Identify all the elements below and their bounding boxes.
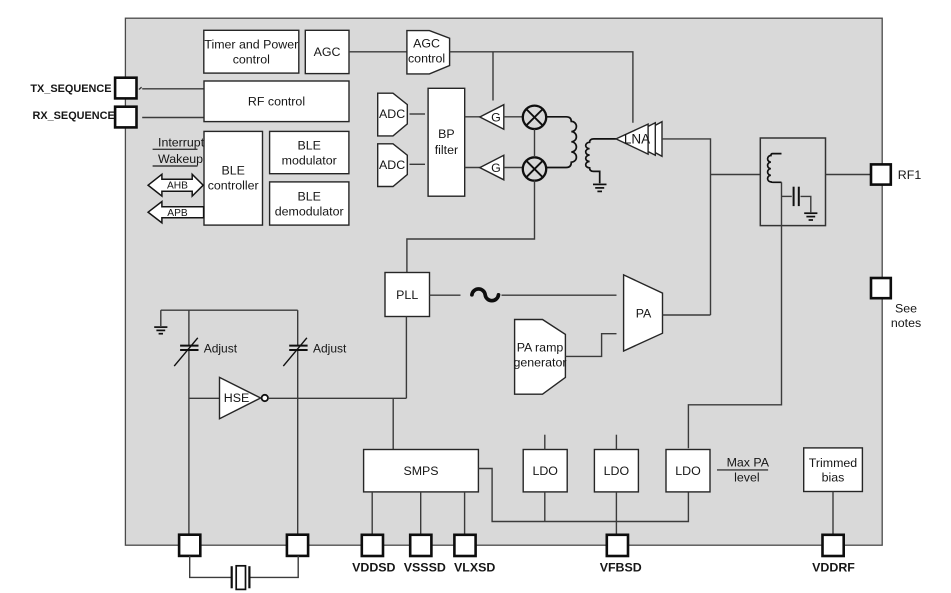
pin square RF1 (871, 164, 891, 184)
wire: SMPS pin 3 (464, 492, 466, 535)
svg-text:modulator: modulator (282, 154, 337, 168)
pin square VDDSD (362, 535, 383, 556)
wire: matching node down to LDO (688, 182, 781, 448)
wire: SMPS pin 1 (371, 492, 373, 535)
mixer top (circle with X) (523, 106, 546, 129)
amplifier G bottom (triangle) (480, 155, 504, 180)
right crystal line lower (297, 351, 299, 535)
svg-text:VLXSD: VLXSD (454, 560, 495, 574)
svg-text:RF control: RF control (248, 95, 305, 109)
ground (oscillator) (154, 327, 167, 334)
wire: SMPS output bus to LDO3 (478, 469, 688, 522)
ground (balun secondary) (593, 184, 607, 191)
svg-text:BP: BP (438, 127, 455, 141)
svg-text:BLE: BLE (297, 139, 320, 153)
svg-text:Trimmed: Trimmed (809, 456, 858, 470)
left crystal line upper (188, 310, 190, 345)
wire: G bottom to mixer bottom (504, 167, 523, 169)
chip body gray rectangle (125, 18, 882, 545)
block: ADC bottom (hexagon) (378, 144, 408, 187)
matching inductor coil (768, 154, 782, 183)
svg-text:ADC: ADC (379, 107, 405, 121)
svg-text:APB: APB (167, 208, 188, 219)
oscillator top rail (161, 309, 298, 311)
block: Timer and Power control (204, 30, 299, 73)
block: LDO 1 (523, 450, 567, 492)
block: LDO 2 (594, 450, 638, 492)
svg-text:AHB: AHB (167, 181, 188, 192)
pin square XTAL left (179, 535, 200, 556)
LNA middle triangle (623, 123, 655, 155)
block: RF control (204, 81, 349, 122)
svg-text:VSSSD: VSSSD (404, 560, 446, 574)
LNA front triangle (616, 124, 648, 154)
wire: TX_SEQUENCE to RF control (142, 88, 204, 90)
balun secondary coil to LNA (586, 139, 616, 183)
svg-text:filter: filter (435, 143, 458, 157)
wire: HSE output to PLL/SMPS (268, 397, 406, 399)
wire: PA ramp generator to PA (565, 334, 616, 357)
block: PLL (385, 273, 430, 317)
svg-text:Interrupt: Interrupt (158, 135, 205, 149)
mixer bottom (circle with X) (523, 157, 546, 180)
svg-text:LDO: LDO (532, 464, 558, 478)
pin square See notes (871, 278, 891, 298)
wire: LDO1 bottom (544, 492, 546, 522)
block: AGC control (hexagon) (407, 31, 450, 74)
crystal symbol (232, 566, 250, 590)
svg-text:PA: PA (636, 306, 652, 320)
svg-text:Adjust: Adjust (313, 341, 347, 355)
block: Trimmed bias (804, 448, 863, 492)
block: BLE controller (204, 131, 263, 225)
wire: crystal left (190, 556, 232, 578)
wire: PLL output left segment (430, 294, 461, 296)
label Interrupt (underlined) (153, 135, 205, 149)
svg-text:bias: bias (822, 470, 845, 484)
sine symbol (472, 289, 499, 301)
ground stub (oscillator) (160, 310, 162, 326)
svg-text:VFBSD: VFBSD (600, 560, 642, 574)
balun primary coil (between mixer outputs) (546, 117, 577, 168)
svg-text:LDO: LDO (675, 464, 701, 478)
svg-text:controller: controller (208, 178, 259, 192)
svg-text:G: G (491, 110, 501, 124)
block: BLE demodulator (270, 182, 349, 225)
svg-text:LDO: LDO (604, 464, 630, 478)
wire: HSE input (189, 397, 220, 399)
svg-text:demodulator: demodulator (275, 205, 344, 219)
pin square VFBSD (607, 535, 628, 556)
wire: Trimmed bias to VDDRF (832, 492, 834, 535)
wire: PLL bottom vertical (405, 317, 407, 399)
wire: LNA output to PA output node (662, 139, 711, 315)
block: PA ramp generator (hexagon) (513, 320, 566, 395)
block: BLE modulator (270, 131, 349, 173)
svg-text:G: G (491, 161, 501, 175)
svg-text:Timer and Power: Timer and Power (204, 38, 298, 52)
wire: node to matching network (711, 174, 761, 176)
svg-text:AGC: AGC (413, 37, 440, 51)
label See notes (891, 302, 921, 330)
block: ADC top (hexagon) (378, 93, 408, 136)
pin square VSSSD (410, 535, 431, 556)
svg-text:Adjust: Adjust (204, 341, 238, 355)
wire: sine to PA (502, 294, 617, 296)
block: LDO 3 (666, 450, 710, 492)
block: BP filter (428, 88, 465, 196)
svg-text:VDDSD: VDDSD (352, 560, 395, 574)
svg-text:See: See (895, 302, 917, 316)
svg-text:TX_SEQUENCE: TX_SEQUENCE (30, 83, 111, 95)
svg-text:ADC: ADC (379, 158, 405, 172)
svg-text:RF1: RF1 (898, 168, 922, 182)
wire: SMPS feed (392, 398, 394, 449)
wire: mixer LO to PLL (407, 180, 535, 272)
ground (matching capacitor) (804, 213, 817, 220)
AHB double arrow (148, 174, 203, 196)
block: SMPS (364, 450, 479, 492)
tick mark after TX square (139, 87, 142, 89)
matching network box (760, 138, 825, 226)
svg-text:SMPS: SMPS (403, 464, 438, 478)
svg-text:HSE: HSE (224, 391, 249, 405)
wire: BP filter to G amp top (465, 116, 481, 118)
LNA back triangle (630, 122, 662, 157)
HSE inverter (triangle with bubble) (220, 377, 268, 418)
APB left arrow (148, 202, 204, 223)
wire: LO link between mixers (534, 129, 536, 157)
svg-text:control: control (408, 52, 445, 66)
trimmer capacitor left (Adjust) (174, 338, 198, 366)
pin square VDDRF (823, 535, 844, 556)
pin square RX_SEQUENCE (115, 107, 136, 128)
wire: AGC to AGC control (349, 51, 407, 53)
wire: RX_SEQUENCE to RF control (142, 117, 204, 119)
svg-text:VDDRF: VDDRF (812, 560, 855, 574)
pin square VLXSD (454, 535, 475, 556)
wire: G top to mixer top (504, 116, 523, 118)
label Max PA / level (717, 455, 770, 484)
wire: ADC bottom to BP filter (410, 163, 426, 165)
wire: LDO2 bottom to VFBSD (615, 492, 617, 535)
wire: LDO1 top stub (544, 435, 546, 450)
wire: AGC control to LNA top (450, 52, 633, 123)
svg-text:generator: generator (513, 355, 566, 369)
svg-text:level: level (734, 470, 759, 484)
right crystal line upper (297, 310, 299, 345)
wire: PA output (663, 314, 711, 316)
amplifier G top (triangle) (480, 105, 504, 130)
svg-text:BLE: BLE (297, 190, 320, 204)
left crystal line lower (188, 351, 190, 535)
wire: SMPS pin 2 (420, 492, 422, 535)
wire: matching network to RF1 (826, 174, 872, 176)
pin square TX_SEQUENCE (115, 78, 136, 99)
wire: ADC top to BP filter (410, 113, 426, 115)
svg-text:PLL: PLL (396, 288, 418, 302)
wire: crystal right (249, 556, 298, 578)
block: PA (trapezoid) (624, 275, 663, 351)
block: AGC (305, 30, 349, 73)
trimmer capacitor right (Adjust) (283, 338, 307, 366)
svg-text:BLE: BLE (221, 163, 244, 177)
pin square XTAL right (287, 535, 308, 556)
svg-text:LNA: LNA (624, 131, 650, 146)
svg-text:Wakeup: Wakeup (158, 152, 203, 166)
svg-text:RX_SEQUENCE: RX_SEQUENCE (32, 110, 114, 122)
capacitor plates (794, 187, 799, 206)
label Wakeup (underlined) (153, 152, 204, 166)
wire: tee to capacitor (782, 195, 792, 197)
wire: LDO2 top stub (615, 435, 617, 450)
svg-text:Max PA: Max PA (727, 455, 770, 469)
wire: capacitor to ground (801, 196, 811, 212)
wire: AGC branch down to G amp (492, 52, 494, 101)
svg-text:AGC: AGC (314, 45, 341, 59)
svg-text:notes: notes (891, 316, 921, 330)
wire: BP filter to G amp bottom (465, 167, 481, 169)
svg-text:PA ramp: PA ramp (517, 341, 564, 355)
svg-text:control: control (233, 52, 270, 66)
